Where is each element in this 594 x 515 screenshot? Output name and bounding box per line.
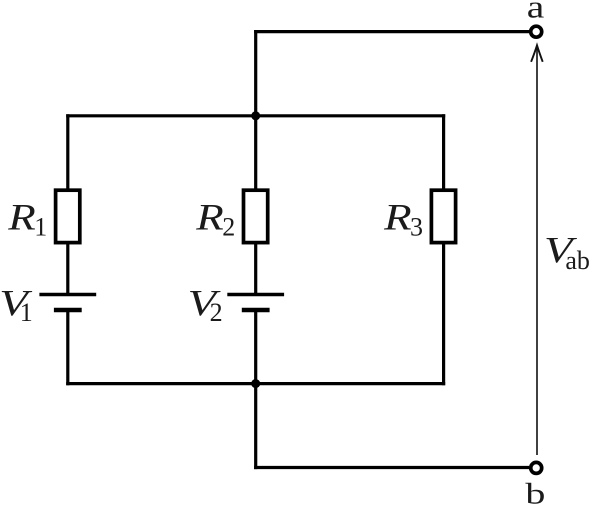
svg-text:b: b — [525, 477, 545, 510]
label R1 — [7, 197, 47, 241]
svg-text:2: 2 — [210, 298, 223, 327]
svg-text:ab: ab — [565, 246, 590, 275]
node junction dot top — [251, 111, 260, 120]
voltage arrow head (pointing up to a) — [531, 45, 543, 62]
resistor R1 body — [56, 190, 80, 242]
label R3 — [383, 197, 423, 241]
battery V1 long plate — [39, 293, 96, 297]
battery V1 short plate — [54, 308, 82, 313]
svg-text:3: 3 — [410, 212, 423, 241]
battery V2 short plate — [242, 308, 270, 313]
resistor R3 body — [431, 190, 455, 242]
wire left branch upper vertical — [66, 114, 69, 294]
wire bottom outer horizontal (node to terminal b) — [254, 466, 529, 469]
svg-text:R: R — [383, 197, 412, 238]
svg-text:2: 2 — [222, 212, 235, 241]
wire right branch vertical — [442, 114, 445, 385]
wire middle branch vertical (terminal riser through top node down to V2 plate) — [254, 30, 257, 294]
battery V2 long plate — [227, 293, 284, 297]
label V1 — [0, 283, 33, 327]
label R2 — [195, 197, 235, 241]
wire top outer horizontal (node to terminal a) — [254, 30, 529, 33]
wire left branch lower vertical — [66, 309, 69, 385]
label V2 — [188, 283, 223, 327]
voltage arrow line Vab — [536, 48, 538, 455]
node junction dot bottom — [251, 379, 260, 388]
label Vab — [544, 230, 590, 275]
svg-text:a: a — [527, 0, 545, 24]
resistor R2 body — [244, 190, 268, 242]
svg-text:1: 1 — [20, 298, 33, 327]
wire top node horizontal — [66, 114, 445, 117]
wire middle branch lower vertical — [254, 309, 257, 469]
svg-text:1: 1 — [34, 212, 47, 241]
svg-text:R: R — [7, 197, 36, 238]
terminal a open circle — [531, 26, 542, 37]
wire bottom node horizontal — [66, 382, 445, 385]
terminal b open circle — [531, 462, 542, 473]
svg-text:R: R — [195, 197, 224, 238]
